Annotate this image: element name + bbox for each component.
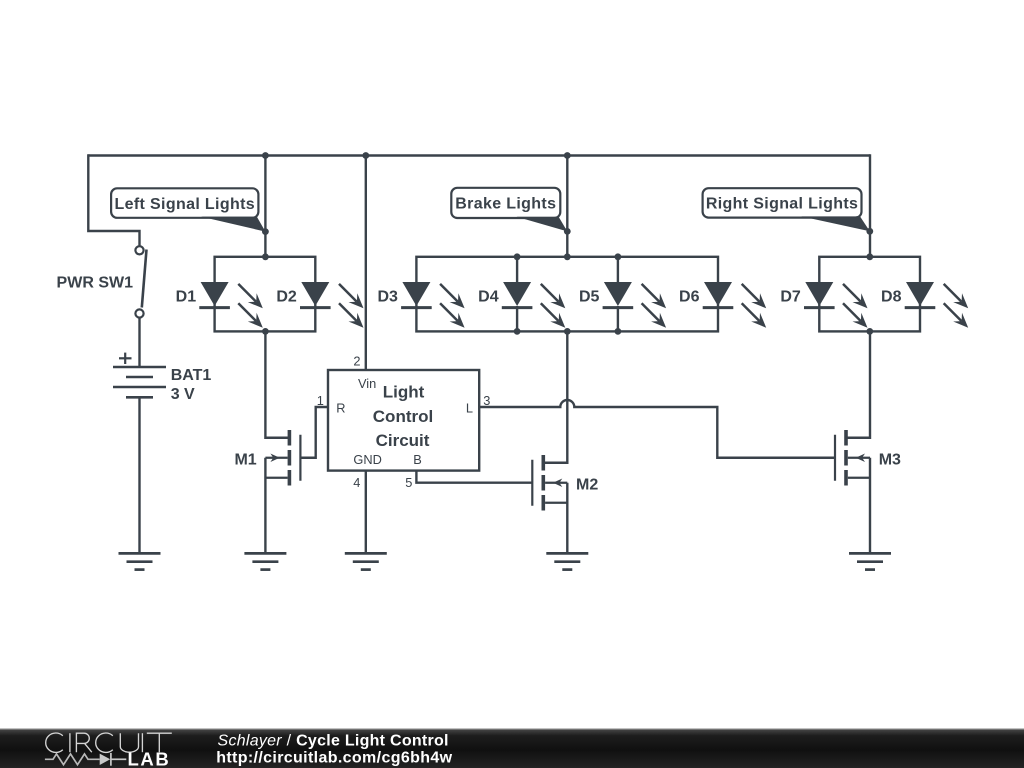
logo LAB wordmark (128, 748, 171, 768)
pin name Vin (358, 376, 376, 391)
wire: right drop from rail to right LED bank (869, 154, 871, 256)
junction D5 top (615, 253, 622, 260)
svg-text:D5: D5 (579, 289, 600, 306)
LED D6 (703, 282, 767, 328)
svg-text:5: 5 (405, 475, 412, 490)
wire: pin 1 (R) to M1 gate (300, 407, 329, 458)
ground (M1) (244, 553, 286, 569)
junction left bank top (262, 253, 269, 260)
svg-text:PWR SW1: PWR SW1 (57, 275, 134, 292)
svg-text:1: 1 (317, 393, 324, 408)
LED D8 (905, 282, 969, 328)
wire: brake LED bank frame (416, 257, 718, 332)
LED D7 (804, 282, 868, 328)
svg-text:R: R (336, 400, 345, 415)
wire: rail to Vin (pin 2) (365, 156, 367, 371)
svg-text:M2: M2 (576, 477, 598, 494)
svg-text:LAB: LAB (128, 748, 171, 768)
wire: right LED bank to M3 drain (847, 331, 870, 437)
LED D2 (300, 282, 364, 328)
svg-text:BAT1: BAT1 (171, 367, 212, 384)
ground (battery) (119, 553, 161, 569)
wire: M2 source to ground (566, 483, 568, 553)
footer title: Schlayer / Cycle Light Control (218, 733, 449, 750)
svg-text:D3: D3 (377, 289, 398, 306)
switch PWR SW1 (135, 246, 146, 317)
label D3 (377, 289, 398, 306)
label BAT1 (171, 367, 212, 384)
wire: brake LED bank to M2 drain (545, 331, 568, 462)
junction D5 bottom (615, 328, 622, 335)
svg-text:D2: D2 (276, 289, 297, 306)
logo resistor symbol (45, 754, 100, 765)
logo CIRCUIT wordmark (46, 733, 172, 752)
junction right bank top (866, 253, 873, 260)
wire: D5 vertical stubs (617, 257, 619, 332)
pin number 3 (483, 393, 490, 408)
junction brake bank bottom (564, 328, 571, 335)
junction right bank bottom (866, 328, 873, 335)
callout "Brake Lights" (brake) (451, 188, 567, 232)
wire: rail to left LED bank (264, 156, 266, 257)
ground (M3) (849, 553, 891, 569)
op-amp U1: Light Control Circuit box (328, 370, 479, 471)
wire: top power rail (88, 154, 870, 156)
svg-text:http://circuitlab.com/cg6bh4w: http://circuitlab.com/cg6bh4w (216, 750, 452, 767)
callout "Left Signal Lights" (left) (111, 188, 265, 231)
transistor M2 (NMOS) (532, 455, 567, 511)
svg-text:GND: GND (353, 452, 381, 467)
label D4 (478, 289, 499, 306)
LED D1 (199, 282, 262, 328)
pin name R (336, 400, 345, 415)
wire: right LED bank frame (819, 257, 920, 332)
pin name L (466, 400, 473, 415)
pin name GND (353, 452, 381, 467)
svg-text:D7: D7 (780, 289, 801, 306)
wire: M3 source to ground (869, 458, 871, 553)
LED D5 (603, 282, 667, 328)
svg-text:Circuit: Circuit (376, 431, 430, 450)
junction brake callout tap (564, 228, 571, 235)
junction right callout tap (866, 228, 873, 235)
logo diode symbol (100, 753, 127, 766)
svg-text:Control: Control (373, 407, 433, 426)
svg-text:Vin: Vin (358, 376, 376, 391)
svg-text:D1: D1 (176, 289, 197, 306)
svg-text:M3: M3 (879, 452, 901, 469)
junction rail / brake bank (564, 152, 571, 159)
label D5 (579, 289, 600, 306)
wire: pin 5 (B) to M2 gate (416, 471, 532, 483)
label D6 (679, 289, 700, 306)
svg-text:3: 3 (483, 393, 490, 408)
svg-text:3 V: 3 V (171, 386, 195, 403)
wire: left LED bank to M1 drain (265, 331, 290, 437)
wire: pin 3 (L) to M3 gate, hop over brake net (479, 400, 835, 458)
pin number 1 (317, 393, 324, 408)
svg-text:4: 4 (353, 475, 360, 490)
svg-text:Right Signal Lights: Right Signal Lights (706, 196, 858, 213)
svg-text:Schlayer / Cycle Light Control: Schlayer / Cycle Light Control (218, 733, 449, 750)
label M1 (234, 452, 256, 469)
wire: rail to brake LED bank (566, 156, 568, 257)
ground (M2) (546, 553, 588, 569)
footer bar (0, 729, 1024, 768)
junction brake bank top (564, 253, 571, 260)
wire: D4 vertical stubs (516, 257, 518, 332)
svg-text:Left Signal Lights: Left Signal Lights (114, 196, 255, 213)
label D8 (881, 289, 902, 306)
battery BAT1 (113, 353, 166, 398)
junction D4 top (514, 253, 521, 260)
label D1 (176, 289, 197, 306)
wire: left LED bank frame (215, 257, 316, 332)
wire: pin 4 (GND) to ground (365, 471, 367, 553)
svg-text:D6: D6 (679, 289, 700, 306)
ground (control circuit) (345, 553, 387, 569)
svg-text:L: L (466, 400, 473, 415)
label D2 (276, 289, 297, 306)
transistor M3 (NMOS) (835, 430, 870, 486)
callout "Right Signal Lights" (right) (703, 188, 870, 231)
pin name B (413, 452, 422, 467)
svg-text:M1: M1 (234, 452, 256, 469)
pin number 5 (405, 475, 412, 490)
junction D4 bottom (514, 328, 521, 335)
LED D4 (502, 282, 566, 328)
transistor M1 (NMOS, mirrored) (265, 430, 300, 486)
label PWR SW1 (57, 275, 134, 292)
pin number 4 (353, 475, 360, 490)
junction rail / Vin (362, 152, 369, 159)
svg-text:D4: D4 (478, 289, 499, 306)
wire: switch to battery (138, 318, 140, 367)
junction left bank bottom (262, 328, 269, 335)
LED D3 (401, 282, 465, 328)
svg-text:D8: D8 (881, 289, 902, 306)
svg-text:2: 2 (353, 354, 360, 369)
svg-text:B: B (413, 452, 422, 467)
svg-text:Light: Light (383, 382, 425, 401)
junction rail / left bank (262, 152, 269, 159)
junction left callout tap (262, 228, 269, 235)
label M3 (879, 452, 901, 469)
label M2 (576, 477, 598, 494)
pin number 2 (353, 354, 360, 369)
svg-text:Brake Lights: Brake Lights (455, 196, 556, 213)
wire: M1 source to ground (264, 458, 266, 553)
value 3 V (171, 386, 195, 403)
label D7 (780, 289, 801, 306)
wire: battery to ground (138, 397, 140, 553)
wire: left drop from rail to switch (88, 154, 139, 246)
footer url (216, 750, 452, 767)
